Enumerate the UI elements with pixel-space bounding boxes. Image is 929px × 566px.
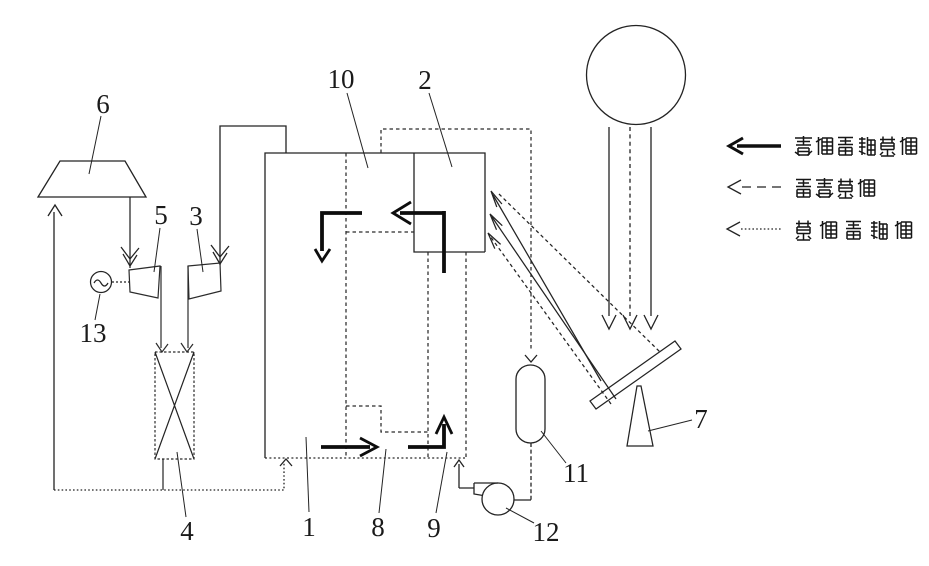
svg-text:8: 8 [371, 512, 385, 542]
svg-text:2: 2 [418, 65, 432, 95]
svg-text:6: 6 [96, 89, 110, 119]
svg-text:9: 9 [427, 513, 441, 543]
svg-text:4: 4 [180, 516, 194, 546]
svg-text:10: 10 [328, 64, 355, 94]
svg-text:12: 12 [533, 517, 560, 547]
svg-text:11: 11 [563, 458, 589, 488]
svg-text:7: 7 [694, 404, 708, 434]
svg-text:5: 5 [154, 200, 168, 230]
svg-text:13: 13 [80, 318, 107, 348]
svg-text:1: 1 [302, 512, 316, 542]
svg-text:3: 3 [189, 201, 203, 231]
